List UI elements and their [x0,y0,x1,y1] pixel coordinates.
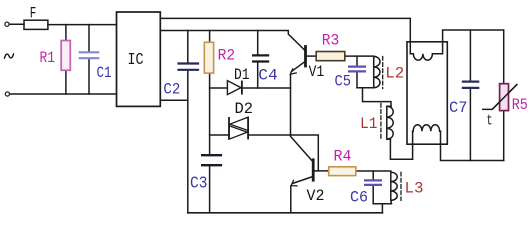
svg-text:t: t [487,113,493,130]
svg-text:R3: R3 [322,31,340,49]
svg-text:R5: R5 [512,96,528,114]
svg-text:L2: L2 [385,65,404,83]
svg-text:C6: C6 [350,189,368,207]
svg-text:D1: D1 [234,66,250,84]
svg-text:L3: L3 [405,180,424,198]
svg-text:R4: R4 [334,148,352,166]
svg-text:L1: L1 [360,115,378,133]
svg-text:V2: V2 [307,187,325,205]
svg-text:C7: C7 [449,99,468,117]
svg-text:C4: C4 [258,66,278,84]
svg-text:C5: C5 [335,73,352,91]
svg-text:R1: R1 [40,49,56,67]
svg-text:D2: D2 [235,100,254,118]
svg-text:R2: R2 [218,46,236,64]
svg-text:C3: C3 [190,175,208,194]
svg-text:V1: V1 [309,63,325,81]
svg-text:C2: C2 [163,81,180,99]
svg-text:F: F [30,5,37,23]
svg-text:C1: C1 [97,64,112,82]
svg-text:IC: IC [128,51,144,70]
